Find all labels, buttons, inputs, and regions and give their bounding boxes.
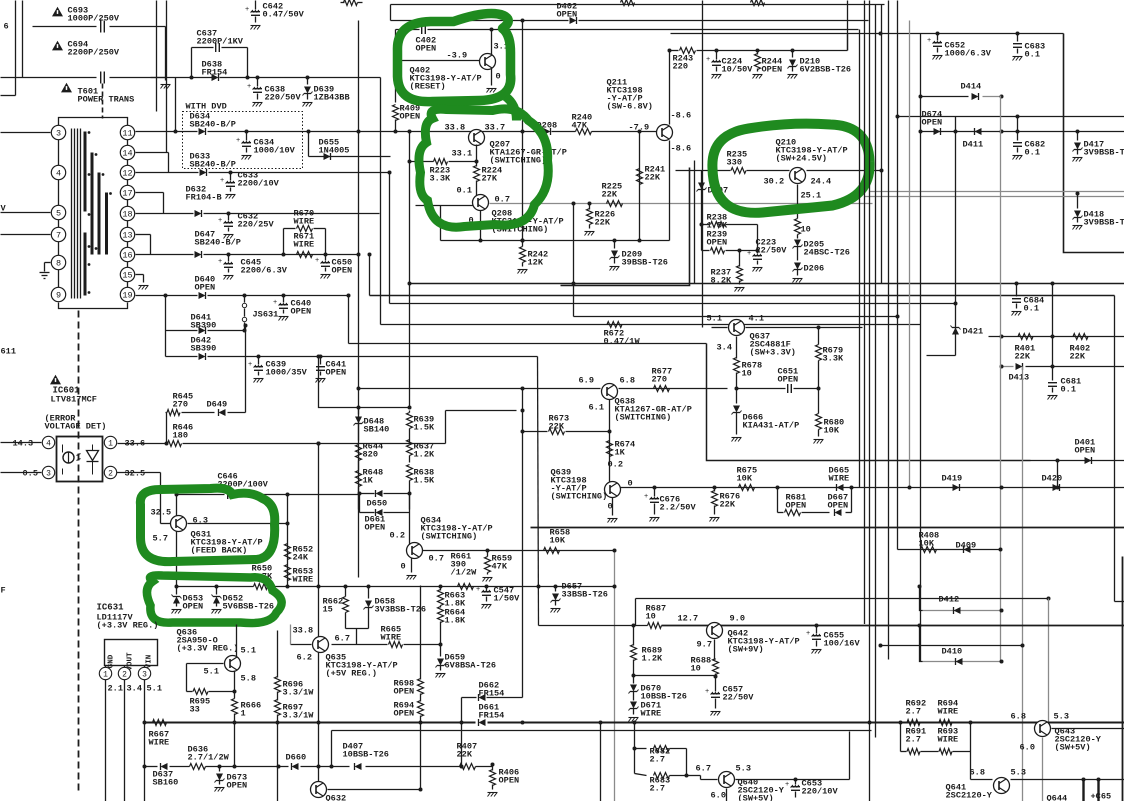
resistor R639 — [409, 411, 411, 413]
svg-text:6.8: 6.8 — [620, 376, 635, 386]
zener D639 — [306, 76, 310, 80]
capacitor C641 — [319, 355, 323, 359]
svg-text:7: 7 — [56, 231, 61, 241]
svg-text:+: + — [248, 361, 252, 369]
annotation green5 — [147, 575, 282, 623]
zener D658 — [368, 587, 370, 599]
svg-text:6.0: 6.0 — [711, 791, 726, 801]
resistor R663 — [440, 587, 442, 591]
wire — [1, 212, 51, 214]
svg-text:270: 270 — [652, 375, 667, 385]
svg-text:SB240-B/P: SB240-B/P — [190, 160, 236, 170]
diode D638 — [212, 74, 219, 81]
svg-text:220: 220 — [673, 62, 688, 72]
svg-text:WIRE: WIRE — [294, 217, 315, 227]
resistor R676 — [714, 488, 716, 492]
diode D414 — [972, 93, 979, 100]
wire — [45, 262, 51, 264]
svg-text:(SWITCHING): (SWITCHING) — [615, 413, 672, 423]
svg-text:22K: 22K — [1015, 352, 1031, 362]
svg-text:15: 15 — [122, 271, 132, 281]
wire — [15, 1, 17, 96]
wire x955 — [955, 117, 957, 356]
svg-text:IC631: IC631 — [97, 603, 125, 613]
zener D210 — [791, 49, 795, 53]
wire base — [291, 644, 312, 646]
transistor Q632 — [311, 782, 327, 798]
vert x1000 — [1000, 96, 1002, 662]
svg-text:3.4: 3.4 — [127, 684, 142, 694]
svg-text:5.3: 5.3 — [1054, 712, 1069, 722]
wire D650 row — [360, 493, 375, 495]
transformer core — [71, 129, 73, 299]
wire — [136, 295, 198, 297]
pin 17 — [120, 185, 134, 199]
wire x919 — [918, 585, 922, 589]
wire — [726, 789, 728, 801]
svg-text:24BSC-T26: 24BSC-T26 — [804, 248, 850, 258]
bus y295 — [370, 295, 1115, 297]
svg-text:6.8: 6.8 — [970, 768, 985, 778]
svg-text:12.7: 12.7 — [678, 614, 699, 624]
svg-text:D660: D660 — [286, 753, 307, 763]
svg-text:8: 8 — [56, 259, 61, 269]
svg-text:1.5K: 1.5K — [414, 476, 435, 486]
svg-text:1000/35V: 1000/35V — [266, 368, 308, 378]
annotation green4 — [140, 488, 274, 562]
wire — [416, 205, 473, 207]
wire — [117, 472, 161, 474]
svg-text:3: 3 — [142, 670, 147, 679]
optocoupler IC601 — [57, 437, 103, 482]
vert x318 — [318, 444, 320, 767]
capacitor C657 — [715, 677, 717, 692]
svg-text:10: 10 — [742, 369, 752, 379]
resistor R687 — [648, 623, 662, 629]
pin 16 — [120, 247, 134, 261]
bus y316 — [574, 316, 898, 318]
resistor R662 — [345, 587, 347, 597]
svg-text:POWER TRANS: POWER TRANS — [78, 95, 135, 105]
svg-text:1N4005: 1N4005 — [319, 146, 350, 156]
resistor R241 — [637, 169, 643, 185]
svg-text:GND: GND — [108, 654, 116, 668]
svg-text:D649: D649 — [207, 400, 228, 410]
capacitor C646 — [177, 494, 225, 496]
svg-text:0.7: 0.7 — [429, 554, 444, 564]
transformer bottom link — [59, 303, 128, 309]
annotation green1 — [397, 14, 510, 102]
wire D661 row — [360, 512, 375, 514]
svg-text:OPEN: OPEN — [332, 266, 353, 276]
svg-text:(+5V REG.): (+5V REG.) — [326, 669, 378, 679]
transistor Q640 — [719, 772, 735, 788]
svg-text:17: 17 — [122, 189, 132, 199]
winding dots — [88, 131, 91, 134]
svg-text:820: 820 — [363, 450, 378, 460]
svg-text:OPEN: OPEN — [762, 65, 783, 75]
pin 9 — [51, 287, 65, 301]
svg-text:4: 4 — [56, 169, 61, 179]
ground — [139, 285, 149, 287]
transistor Q208 — [473, 195, 489, 211]
svg-text:2200P/250V: 2200P/250V — [68, 48, 120, 58]
wire — [236, 625, 238, 657]
svg-text:22/50V: 22/50V — [723, 693, 755, 703]
wire — [714, 640, 716, 660]
resistor R240 — [576, 129, 592, 135]
svg-text:(+3.3V REG.): (+3.3V REG.) — [97, 621, 159, 631]
bus y303 — [390, 303, 956, 305]
ground — [487, 88, 497, 90]
diode D413 — [1016, 363, 1023, 370]
svg-text:FR154: FR154 — [202, 68, 228, 78]
zener D657 — [555, 587, 557, 592]
wire x287 — [287, 495, 289, 587]
wire — [1, 442, 42, 444]
svg-text:1: 1 — [241, 709, 246, 719]
transistor Q207 — [469, 130, 485, 146]
svg-text:100/16V: 100/16V — [824, 639, 861, 649]
svg-text:LTV817MCF: LTV817MCF — [51, 395, 97, 405]
wire — [391, 20, 569, 22]
svg-text:22K: 22K — [457, 750, 473, 760]
svg-text:+: + — [245, 6, 249, 14]
wire 6.3 — [188, 523, 288, 525]
wire — [136, 152, 169, 154]
wire — [176, 495, 178, 587]
svg-text:D650: D650 — [367, 499, 388, 509]
transistor Q639 — [605, 482, 621, 498]
svg-text:2.7: 2.7 — [906, 735, 921, 745]
svg-text:1000/6.3V: 1000/6.3V — [945, 49, 992, 59]
svg-text:2.1: 2.1 — [108, 684, 123, 694]
svg-text:0.47/50V: 0.47/50V — [263, 10, 305, 20]
wire — [187, 663, 224, 665]
svg-text:JS631: JS631 — [253, 310, 279, 320]
resistor R675 — [739, 485, 755, 491]
resistor R679 — [818, 328, 820, 345]
resistor R674 — [607, 441, 613, 457]
wire — [609, 400, 611, 482]
svg-text:33.7: 33.7 — [485, 123, 506, 133]
svg-text:D420: D420 — [1042, 474, 1063, 484]
svg-text:2.7: 2.7 — [650, 755, 665, 765]
wire y487 — [621, 487, 1124, 489]
resistor R673 — [523, 431, 548, 433]
diode D661 — [479, 719, 486, 726]
wire — [102, 84, 104, 119]
svg-text:D414: D414 — [961, 82, 982, 92]
svg-text:OPEN: OPEN — [499, 776, 520, 786]
wire — [1, 132, 51, 134]
resistor R238 — [702, 224, 710, 226]
svg-text:5.1: 5.1 — [204, 667, 219, 677]
svg-text:SB240-B/P: SB240-B/P — [195, 238, 241, 248]
svg-text:0.2: 0.2 — [390, 531, 405, 541]
annotation green3 — [712, 124, 869, 213]
pin 2 — [124, 666, 126, 668]
diode D642 — [199, 353, 206, 360]
zener D206 — [794, 263, 801, 270]
svg-text:+: + — [218, 217, 222, 225]
resistor R223 — [410, 161, 434, 163]
svg-text:6.1: 6.1 — [589, 403, 604, 413]
svg-text:+: + — [785, 781, 789, 789]
svg-text:WIRE: WIRE — [829, 474, 850, 484]
zener D653 — [176, 587, 178, 595]
svg-text:2200/10V: 2200/10V — [238, 179, 280, 189]
capacitor C634 — [245, 130, 249, 134]
svg-text:3V3BSB-T26: 3V3BSB-T26 — [375, 605, 427, 615]
vert x847 — [847, 34, 849, 51]
svg-text:(SW-6.8V): (SW-6.8V) — [607, 102, 653, 112]
diode D637 — [161, 763, 168, 770]
svg-text:-8.6: -8.6 — [671, 111, 692, 121]
wire — [127, 133, 129, 295]
diode D655 — [324, 153, 331, 160]
svg-text:14: 14 — [122, 149, 132, 159]
wire y550 — [423, 550, 615, 552]
pin 7 — [51, 227, 65, 241]
resistor R682 — [635, 748, 647, 750]
svg-text:10K: 10K — [824, 426, 840, 436]
wire — [166, 356, 198, 358]
resistor R698 — [420, 586, 422, 680]
svg-text:24.4: 24.4 — [811, 177, 832, 187]
pin 8 — [51, 255, 65, 269]
pin 15 — [120, 267, 134, 281]
wire — [22, 1, 24, 78]
svg-text:22K: 22K — [595, 218, 611, 228]
svg-text:Q632: Q632 — [326, 794, 347, 801]
resistor R644 — [356, 445, 362, 461]
resistor R664 — [438, 607, 444, 623]
resistor R670 — [282, 253, 286, 257]
resistor R645 — [167, 410, 180, 416]
wire — [807, 170, 882, 172]
svg-text:OPEN: OPEN — [394, 687, 415, 697]
svg-text:9.7: 9.7 — [697, 640, 712, 650]
svg-text:0.1: 0.1 — [1061, 385, 1076, 395]
resistor R692 — [901, 722, 907, 724]
wire x420 bottom — [420, 723, 422, 790]
svg-text:47K: 47K — [572, 121, 588, 131]
IC631 box — [105, 640, 158, 666]
svg-text:33BSB-T26: 33BSB-T26 — [562, 590, 608, 600]
vert x864 — [864, 1, 866, 625]
zener D207 — [701, 171, 703, 194]
svg-text:6.8: 6.8 — [1011, 712, 1026, 722]
vert x166 — [166, 1, 168, 153]
diode D402 — [570, 17, 577, 24]
transformer secondary bars — [91, 153, 94, 255]
zener D670 — [633, 676, 635, 684]
pin 2 — [104, 466, 116, 478]
ground — [161, 84, 171, 86]
svg-text:OPEN: OPEN — [786, 501, 807, 511]
svg-text:VIN: VIN — [146, 654, 154, 668]
wire y645 — [881, 645, 1023, 647]
svg-text:330: 330 — [727, 158, 742, 168]
svg-text:0.1: 0.1 — [457, 186, 472, 196]
wire — [736, 779, 796, 781]
transformer top link — [59, 118, 128, 126]
resistor R678 — [734, 358, 740, 374]
resistor R658b — [544, 548, 560, 554]
wire D414 row — [921, 96, 969, 98]
capacitor C645 — [227, 253, 231, 257]
pin 1 — [105, 666, 107, 668]
svg-text:33.1: 33.1 — [452, 149, 473, 159]
transistor Q634 — [407, 543, 423, 559]
svg-text:(SWITCHING): (SWITCHING) — [551, 492, 608, 502]
transistor Q211 — [657, 125, 673, 141]
transistor Q635 — [313, 637, 329, 653]
svg-text:2200P/1KV: 2200P/1KV — [197, 37, 244, 47]
svg-text:1/50V: 1/50V — [494, 594, 521, 604]
capacitor C639 — [257, 355, 261, 359]
zener D673 — [219, 767, 221, 772]
svg-text:47K: 47K — [492, 562, 508, 572]
svg-text:0.2: 0.2 — [608, 460, 623, 470]
wire x461 — [461, 723, 463, 767]
zener D648 — [358, 408, 360, 415]
diode D419 — [953, 484, 960, 491]
wire y240 — [441, 240, 670, 242]
svg-text:9: 9 — [56, 291, 61, 301]
wire y779 — [971, 779, 993, 781]
wire — [136, 234, 151, 236]
transistor Q402 — [480, 54, 496, 70]
resistor R224 — [476, 145, 478, 167]
resistor R661 — [458, 584, 474, 590]
resistor R673 zz — [549, 429, 565, 435]
svg-text:1.2K: 1.2K — [414, 450, 435, 460]
vert x1114 — [1114, 296, 1116, 602]
resistor R653 — [285, 565, 291, 581]
svg-text:4.1: 4.1 — [749, 314, 764, 324]
svg-text:WIRE: WIRE — [938, 707, 959, 717]
wire — [136, 172, 199, 174]
svg-text:3V9BSB-T: 3V9BSB-T — [1084, 148, 1124, 158]
wire — [346, 628, 369, 630]
svg-text:10BSB-T26: 10BSB-T26 — [343, 750, 389, 760]
capacitor C694 — [100, 72, 102, 84]
diode D634 — [199, 128, 206, 135]
svg-text:1: 1 — [103, 670, 108, 679]
svg-text:(SWITCHING): (SWITCHING) — [421, 532, 478, 542]
vert x897 — [897, 1, 899, 550]
diode D412 — [954, 607, 961, 614]
svg-text:OPEN: OPEN — [1075, 446, 1096, 456]
svg-text:6V2BSB-T26: 6V2BSB-T26 — [800, 65, 852, 75]
resistor R237 — [738, 249, 742, 253]
svg-text:22K: 22K — [602, 190, 618, 200]
svg-text:OPEN: OPEN — [227, 781, 248, 791]
svg-text:2.7/1/2W: 2.7/1/2W — [188, 753, 230, 763]
svg-text:0.5: 0.5 — [23, 469, 38, 479]
svg-text:6.0: 6.0 — [1020, 743, 1035, 753]
wire — [165, 27, 167, 81]
wire — [612, 498, 614, 516]
wire — [638, 130, 642, 134]
zener D421 — [952, 328, 959, 335]
svg-text:2200/6.3V: 2200/6.3V — [241, 266, 288, 276]
diode D674 — [934, 128, 941, 135]
svg-text:3.3/1W: 3.3/1W — [283, 711, 315, 721]
diode D647 — [195, 251, 202, 258]
transistor Q637 — [729, 320, 745, 336]
diode D661b — [376, 509, 383, 516]
svg-text:3V9BSB-T: 3V9BSB-T — [1084, 218, 1124, 228]
svg-text:(SW+24.5V): (SW+24.5V) — [776, 154, 828, 164]
resistor R667 — [153, 720, 167, 726]
svg-text:D411: D411 — [963, 140, 984, 150]
wire gray y191 — [870, 191, 1124, 193]
svg-text:OPEN: OPEN — [828, 501, 849, 511]
svg-text:2.7: 2.7 — [650, 784, 665, 794]
svg-text:+: + — [247, 83, 251, 91]
svg-text:5.3: 5.3 — [736, 764, 751, 774]
pin 1 — [104, 436, 116, 448]
wire D662 box — [461, 698, 463, 723]
svg-text:(FEED BACK): (FEED BACK) — [191, 546, 248, 556]
wire — [118, 443, 167, 445]
svg-text:33: 33 — [190, 705, 200, 715]
bus y283 — [410, 283, 1124, 285]
diode D665 — [837, 484, 844, 491]
resistor R693 — [939, 749, 952, 755]
vert x875 — [875, 5, 877, 738]
svg-text:19: 19 — [122, 291, 132, 301]
transistor Q210 — [790, 168, 806, 184]
bus y324 — [381, 324, 921, 326]
svg-text:WITH DVD: WITH DVD — [186, 102, 227, 112]
svg-text:VOLTAGE DET): VOLTAGE DET) — [45, 422, 107, 432]
wire x633 — [633, 626, 635, 646]
svg-text:5.1: 5.1 — [147, 684, 162, 694]
svg-text:2SC2120-Y: 2SC2120-Y — [946, 791, 993, 801]
wire — [1052, 728, 1124, 730]
svg-text:22K: 22K — [1070, 352, 1086, 362]
resistor R244 — [756, 49, 760, 53]
svg-text:3.3K: 3.3K — [823, 354, 844, 364]
resistor R235 — [731, 168, 746, 174]
svg-text:18: 18 — [122, 210, 132, 220]
resistor R226 — [572, 202, 576, 206]
svg-text:FR154: FR154 — [479, 689, 505, 699]
capacitor C402 — [421, 25, 423, 34]
capacitor C676 — [654, 488, 656, 497]
svg-text:SB240-B/P: SB240-B/P — [190, 120, 236, 130]
vert x358 — [358, 21, 360, 578]
zener D666 — [736, 389, 738, 404]
wire — [1064, 34, 1124, 253]
svg-text:16: 16 — [122, 251, 132, 261]
svg-text:6: 6 — [4, 22, 9, 32]
svg-text:10: 10 — [691, 664, 701, 674]
wire — [1, 77, 97, 79]
wire — [702, 1, 704, 328]
svg-text:30.2: 30.2 — [764, 177, 785, 187]
dotted box — [183, 112, 303, 169]
svg-text:6.2: 6.2 — [297, 653, 312, 663]
svg-text:22/50V: 22/50V — [756, 246, 788, 256]
svg-text:+: + — [705, 688, 709, 696]
svg-text:3: 3 — [46, 469, 51, 478]
svg-text:6.7: 6.7 — [335, 634, 350, 644]
